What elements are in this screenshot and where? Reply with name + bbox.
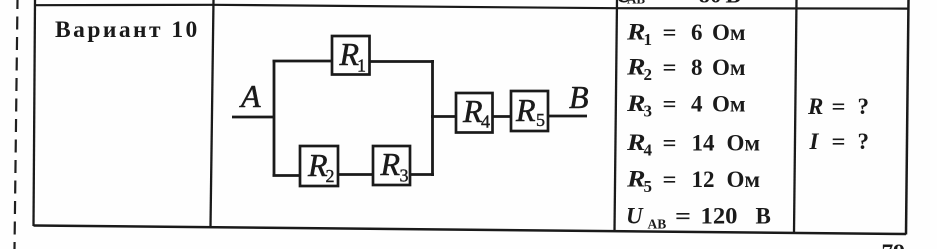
svg-text:5: 5: [536, 110, 545, 130]
svg-text:2: 2: [326, 166, 335, 186]
resistor R3: [373, 146, 410, 186]
wire between R4 and R5: [492, 115, 512, 118]
svg-text:3: 3: [400, 166, 409, 186]
cut-off previous row value label U_AB = 80 V fragment: [616, 0, 741, 7]
svg-text:АВ: АВ: [627, 0, 645, 7]
svg-text:A: A: [239, 78, 261, 114]
wire top branch right segment: [370, 60, 435, 63]
resistor R4: [456, 93, 493, 133]
svg-text:1: 1: [357, 56, 366, 76]
table bottom border: [34, 226, 907, 235]
svg-text:R=?: R=?: [807, 94, 869, 119]
svg-text:R: R: [380, 146, 401, 182]
svg-text:4: 4: [481, 112, 490, 132]
svg-text:I=?: I=?: [809, 129, 870, 154]
svg-text:В: В: [726, 0, 741, 7]
wire bottom branch right segment: [410, 173, 434, 176]
wire from node A to left junction: [232, 116, 275, 119]
wire bottom branch left segment: [273, 174, 302, 177]
resistor R1: [332, 36, 370, 76]
page torn edge dashed line: [15, 0, 18, 249]
wire top branch left segment: [273, 60, 334, 63]
wire right junction vertical bar: [431, 60, 434, 176]
svg-text:79: 79: [882, 240, 906, 249]
wire left junction vertical bar: [273, 60, 276, 176]
svg-text:R: R: [462, 93, 483, 129]
table row separator line: [34, 5, 908, 9]
svg-text:80: 80: [699, 0, 722, 7]
svg-text:R: R: [515, 92, 536, 128]
column divider 3: [794, 0, 797, 233]
resistor R5: [511, 91, 548, 131]
table right border: [906, 0, 909, 235]
svg-text:Вариант 10: Вариант 10: [55, 17, 200, 43]
wire between R2 and R3: [338, 173, 374, 176]
column divider 2: [615, 0, 618, 232]
wire from right junction to R4: [431, 115, 457, 118]
table left border: [34, 0, 36, 226]
resistor R2: [300, 146, 338, 186]
column divider 1: [211, 0, 214, 227]
wire from R5 to node B: [548, 115, 587, 118]
svg-text:B: B: [569, 79, 589, 115]
